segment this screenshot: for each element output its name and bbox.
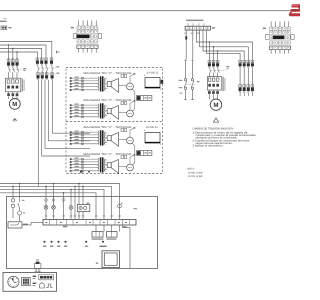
wire drop lamp H2 — [53, 184, 55, 220]
svg-text:10-000 11: 10-000 11 — [147, 71, 159, 74]
wire drops below strip — [96, 225, 120, 232]
junction dot A1 — [8, 44, 10, 46]
legend symbol box top-left — [1, 26, 7, 29]
overload relay contacts — [7, 86, 10, 89]
wire bus R2 — [200, 30, 249, 63]
dashed separator — [66, 121, 163, 123]
TS1 cell marks — [50, 220, 130, 226]
delta symbol — [213, 118, 218, 122]
wire drop F5 — [12, 186, 14, 218]
connector block CB1 — [137, 96, 152, 101]
fuse circle aux — [62, 198, 65, 201]
wire bus L1 — [0, 42, 52, 61]
contactor C5 upper terminals — [239, 60, 254, 63]
wire drop lamp H1 — [45, 186, 47, 219]
wire B5 bend to transformer box — [52, 80, 90, 133]
X3 upper stubs — [188, 23, 204, 26]
wire tap phase A1 — [8, 45, 10, 62]
house symbol — [40, 283, 45, 288]
fuse box Fu6 — [92, 232, 103, 238]
F4 contacts — [208, 84, 211, 87]
bottom edge tap marks — [80, 170, 83, 172]
connector block CB2 — [137, 151, 152, 156]
F4 heater elements — [208, 78, 219, 81]
junction dot F1 — [19, 183, 21, 185]
wires to contactor C4 — [38, 70, 52, 75]
wire B1 long down to panel bus — [37, 80, 39, 186]
wires C2 to overload — [209, 73, 217, 77]
fuse circle F5b — [11, 204, 14, 207]
stepped feeder wire 4 — [0, 193, 96, 220]
selector window W1 — [145, 78, 160, 88]
Q1 upper wires — [186, 59, 193, 78]
wire labels above strip — [45, 215, 121, 216]
dotted keypad square — [22, 277, 31, 285]
contactor C5 terminal circles — [239, 62, 253, 68]
label Q1 — [197, 81, 200, 82]
wire drop lamp H3 — [70, 190, 72, 220]
tiny feeder label top-left — [0, 21, 7, 22]
wire drops M2 relay — [75, 184, 83, 220]
contactor C1 upper terminals — [7, 59, 18, 62]
wire bus N — [0, 52, 37, 61]
wire end ticks C5 — [240, 93, 252, 96]
label PL — [96, 262, 98, 263]
svg-text:CAMBIO DE TENSION 400V/230V: CAMBIO DE TENSION 400V/230V — [193, 128, 234, 131]
motor terminal row M2 — [208, 91, 211, 94]
G-DASHBOX — [66, 68, 183, 174]
lamp H1 — [44, 205, 48, 209]
tiny wire labels under X3 — [184, 33, 187, 34]
wire tap phase A3 — [16, 52, 18, 62]
contactor C3 poles — [36, 61, 39, 64]
label -2X — [212, 27, 215, 29]
motor M1 — [9, 99, 20, 110]
dot labels — [43, 246, 88, 247]
junction dot A3 — [16, 51, 18, 53]
wire bus L2 — [0, 45, 46, 61]
dashed enclosure — [66, 68, 163, 174]
svg-text:NOTA:: NOTA: — [188, 168, 195, 171]
motor terminal block row — [7, 93, 10, 96]
label Fu5 05 A — [107, 238, 117, 239]
wire bus R4 — [207, 30, 241, 63]
stepped feeder wire 3 — [0, 190, 104, 220]
contactor C1 pole 2 — [11, 62, 14, 65]
wire drop to C09 — [123, 225, 131, 269]
wires C5 down — [240, 68, 252, 88]
fuse box Fu5 — [107, 232, 118, 238]
contactor C2 upper terminals — [208, 60, 219, 63]
G-LOGO — [289, 4, 300, 16]
company logo S (top-right, clipped) — [289, 4, 300, 16]
lower terminal circles C5 — [239, 91, 253, 92]
contactor C2 terminal circles — [209, 62, 219, 68]
switch F1 blade — [18, 203, 20, 208]
motor M2 — [210, 99, 221, 110]
display window outer — [102, 251, 120, 268]
bottom connector X4 — [34, 264, 41, 269]
svg-text:3-Ajustar el rele termico.: 3-Ajustar el rele termico. — [193, 145, 224, 148]
transformer unit T2 — [70, 99, 136, 119]
terminal block X1 — [73, 20, 102, 52]
relay MB01 box — [8, 222, 22, 228]
G-BRANCHM2 — [207, 60, 229, 122]
G-SWITCHQ — [184, 59, 199, 99]
label C4 — [56, 73, 59, 74]
wire tap M2-2 — [213, 47, 215, 64]
overload relay F4 box — [207, 77, 221, 90]
contactor C3 switch blades — [37, 65, 53, 70]
display window inner — [104, 253, 117, 265]
X2 band left trim — [269, 35, 273, 39]
timer clock — [8, 276, 19, 287]
wire B4 bend to transformer box — [48, 80, 90, 141]
contactor C1 pole 3 — [16, 62, 19, 65]
contactor C4 poles — [37, 75, 40, 78]
contactor C1 switch blades — [9, 67, 19, 72]
label C1 — [23, 68, 26, 69]
contactor C1 pole 1 — [7, 62, 10, 65]
contactor C3 terminal circles — [37, 59, 53, 65]
contactor C4 terminal circles — [37, 79, 53, 80]
fuse circle H1 — [45, 199, 48, 202]
window W1 side tab — [161, 80, 164, 84]
Q1 blades — [184, 81, 194, 88]
contactor C2 linkage — [211, 69, 226, 71]
svg-text:10-006 10 kW: 10-006 10 kW — [188, 171, 204, 174]
disconnect Q1 pole 1 terminals — [184, 79, 186, 81]
wire drop with fuse F3 — [185, 30, 187, 59]
legend text b2 — [33, 283, 37, 284]
transformer unit T1 — [70, 72, 136, 92]
Q1 aux labels — [179, 80, 183, 81]
svg-text:10-000 21: 10-000 21 — [146, 126, 158, 129]
wire B2 bend to transformer box — [42, 80, 90, 156]
wire stub mark right of bus — [56, 51, 59, 54]
voltage label above X3 — [186, 20, 204, 22]
contactor C3 upper terminals — [36, 58, 53, 61]
contactor C4 upper terminals — [37, 73, 54, 76]
legend box — [3, 273, 57, 292]
logo centre dot — [293, 9, 296, 11]
overload relay F2 box — [6, 78, 21, 92]
wire tap phase A2 — [12, 49, 14, 63]
overload relay heater elements — [7, 80, 18, 83]
terminal strip X3 body — [185, 26, 211, 30]
contactor C5 poles — [239, 63, 242, 66]
svg-text:10-076 12 kW: 10-076 12 kW — [188, 175, 204, 178]
label Fu6 3x05 A — [92, 238, 104, 239]
disconnect Q1 pole 2 terminals — [191, 79, 193, 81]
squiggle symbol — [46, 284, 52, 288]
G-MATRIX1 — [71, 20, 102, 52]
wires to motor M1 — [9, 97, 18, 99]
wire MB01 to strip — [22, 222, 43, 225]
terminal strip TS1 — [43, 220, 136, 226]
contactor C2 blades — [209, 68, 219, 73]
link rotors T1-T2 — [133, 89, 135, 111]
wire drop F1 — [19, 184, 21, 222]
label M2 — [87, 203, 90, 204]
fuse circle F5a — [11, 199, 14, 202]
label C08 — [63, 226, 67, 228]
capacitor bank upper terminals — [239, 85, 254, 88]
power label box — [39, 275, 54, 280]
wire B3 bend to transformer box — [45, 80, 90, 148]
label C3 — [56, 66, 59, 67]
lamp H3 — [69, 206, 73, 210]
contactor C2 poles — [208, 63, 211, 66]
stepped feeder wire 2 — [0, 186, 112, 219]
aux relay M2 box — [77, 205, 90, 212]
junction dot F5 — [12, 186, 14, 188]
G-LEFTBUS — [0, 42, 60, 63]
X2 band extension — [282, 36, 285, 40]
label READY — [100, 246, 107, 247]
panel enclosure — [7, 197, 158, 269]
connector X4 cap — [36, 262, 40, 264]
indicator dots row — [44, 241, 105, 243]
label MB01 — [23, 224, 28, 226]
X3 terminals — [186, 27, 189, 30]
label X4 — [36, 259, 39, 260]
G-BRANCHB — [36, 58, 90, 187]
G-MATRIX2 — [263, 21, 294, 53]
legend text 12 — [33, 276, 37, 277]
G-PANEL — [0, 183, 158, 272]
overload relay vertical label — [22, 79, 23, 92]
label F1 — [22, 200, 25, 201]
junction dot A2 — [12, 48, 14, 50]
wires into motor M2 — [209, 90, 217, 99]
contactor C1 terminal circles — [8, 58, 18, 67]
G-TOPLEFT — [0, 18, 11, 29]
Q1 lower wires with end ticks — [184, 90, 194, 100]
clock hands — [11, 278, 13, 282]
contactor C3 linkage dashed — [39, 67, 56, 69]
label near lamp H4 — [134, 208, 137, 209]
tilde mark — [3, 18, 7, 19]
fuse F3 — [185, 36, 187, 39]
label C09 — [123, 226, 127, 227]
wire drop aux — [63, 193, 65, 220]
label C — [23, 212, 25, 213]
wire drop 2 — [192, 30, 194, 59]
wire A1 to overload — [9, 72, 18, 78]
star (wye) symbol — [13, 119, 17, 122]
stepped feeder wire 1 — [0, 184, 120, 220]
wire tap M2-1 — [208, 42, 210, 63]
coil circle C — [18, 211, 22, 215]
G-STRIPX3 — [184, 20, 215, 60]
logo highlight — [292, 5, 298, 8]
transformer unit T4 — [70, 153, 136, 173]
contactor C4 linkage dashed — [40, 73, 57, 75]
label 2x (X1) — [71, 27, 74, 29]
sheet top border — [0, 10, 290, 12]
fuse circle H2 — [52, 199, 55, 202]
terminal block X2 — [266, 21, 295, 53]
G-BRANCHC — [239, 60, 254, 96]
G-LEGEND — [3, 273, 57, 292]
wire tap M2-3 — [217, 51, 219, 63]
contactor C1 linkage dashed — [10, 69, 23, 71]
lamp H4 on wire 119.5 — [118, 203, 123, 208]
wire bus R1 — [196, 30, 252, 63]
G-BRANCHA — [6, 58, 27, 122]
F4 vertical label — [223, 77, 224, 92]
selector window W2 — [145, 133, 160, 143]
wire overload to terminals — [9, 92, 18, 94]
capacitor bank terminal row — [239, 88, 242, 91]
small top ticks Q1 — [184, 60, 193, 62]
svg-text:M: M — [12, 101, 17, 108]
wire bus L3 — [0, 49, 42, 61]
junction dots right bus — [209, 41, 219, 52]
lamp H2 — [52, 205, 56, 209]
G-RIGHTBUS — [196, 30, 252, 63]
link rotors T3-T4 — [133, 143, 135, 165]
G-TEXTBLOCK — [188, 128, 257, 179]
label -2x — [8, 27, 11, 28]
label C2 — [226, 66, 229, 67]
Q1 linkage dashed — [187, 83, 197, 85]
svg-text:M: M — [213, 102, 218, 109]
wire bus R3 — [203, 30, 244, 63]
transformer unit T3 — [70, 126, 136, 146]
label 2x (X2) — [263, 28, 266, 30]
